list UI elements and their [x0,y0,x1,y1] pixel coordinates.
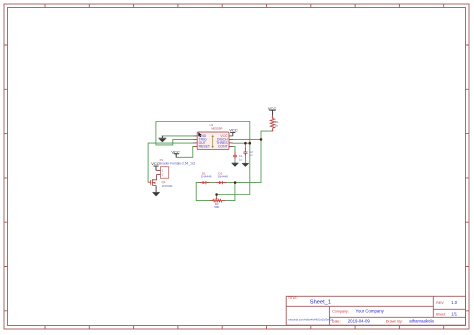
svg-text:VCC: VCC [229,127,238,132]
svg-text:1u: 1u [249,153,253,157]
svg-text:1/1: 1/1 [451,312,457,317]
svg-text:Drawn By:: Drawn By: [386,320,403,324]
svg-text:CONT: CONT [218,145,228,149]
svg-text:NE555P: NE555P [211,126,222,130]
svg-text:2N7000: 2N7000 [162,184,173,188]
svg-text:1.0: 1.0 [451,300,457,305]
svg-text:50K: 50K [214,205,219,209]
svg-text:REV:: REV: [436,301,444,305]
svg-text:2019-04-09: 2019-04-09 [348,319,371,324]
svg-text:Your Company: Your Company [356,308,385,313]
svg-text:Header-Female-2.54_1x2: Header-Female-2.54_1x2 [159,162,196,166]
svg-text:VCC: VCC [268,106,277,111]
svg-text:1N4448: 1N4448 [217,175,228,179]
svg-text:Date:: Date: [332,320,341,324]
svg-text:TITLE:: TITLE: [288,296,298,300]
svg-text:atharvaakola: atharvaakola [409,319,434,324]
svg-text:VCC: VCC [171,149,180,154]
svg-text:Sheet:: Sheet: [436,312,446,316]
svg-text:1k: 1k [275,124,279,128]
svg-text:1N4448: 1N4448 [201,175,212,179]
svg-text:RESET: RESET [199,145,210,149]
svg-text:Sheet_1: Sheet_1 [310,300,331,306]
svg-text:Company:: Company: [332,309,349,313]
svg-text:1u: 1u [239,157,243,161]
svg-text:easyeda.com/editor#id=fb1bd2cf: easyeda.com/editor#id=fb1bd2cf3e62a [288,317,333,321]
